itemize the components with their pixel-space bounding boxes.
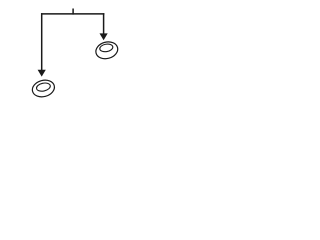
arrowhead left xyxy=(38,70,46,77)
wire: top stub from parent xyxy=(72,9,74,15)
node A: left double ellipse xyxy=(30,78,56,99)
wire: right drop xyxy=(103,13,105,34)
node B: right double ellipse xyxy=(94,40,120,62)
wire: horizontal bus xyxy=(41,13,104,15)
arrowhead right xyxy=(100,33,108,40)
wire: left drop xyxy=(41,13,43,70)
